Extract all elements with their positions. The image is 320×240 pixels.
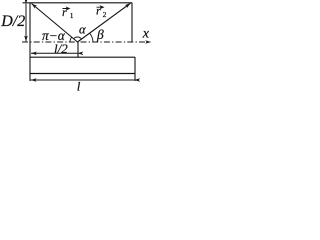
bar bottom edge [30, 73, 135, 75]
x axis (dash-dot) [22, 41, 151, 43]
top edge (rod top line) [23, 2, 133, 4]
angle arc alpha (between r1 and r2) [74, 37, 82, 39]
svg-text:2: 2 [103, 10, 107, 19]
svg-text:x: x [142, 26, 150, 41]
dimension line l/2 (arrows outward) [31, 52, 78, 54]
left edge (vertical line x=30) [29, 3, 31, 82]
svg-text:l: l [77, 79, 81, 94]
angle arc beta (between r2 and +x axis) [90, 33, 93, 41]
dimension line l (arrows outward) [31, 79, 135, 81]
vector r2 [78, 3, 131, 42]
background [0, 0, 155, 98]
vertical line below vertex [77, 42, 79, 57]
svg-text:β: β [96, 27, 104, 42]
svg-text:1: 1 [70, 11, 74, 20]
bar top edge [30, 56, 135, 58]
svg-text:D/2: D/2 [0, 13, 25, 30]
bar right edge [134, 57, 136, 81]
svg-text:α: α [79, 23, 86, 37]
dimension line D/2 (vertical, double arrows) [25, 4, 27, 42]
angle arc pi-alpha (between -x direction and r1) [70, 37, 72, 42]
vector r1 [32, 4, 78, 43]
svg-text:l/2: l/2 [54, 41, 68, 56]
right edge of upper rectangle [131, 3, 133, 43]
